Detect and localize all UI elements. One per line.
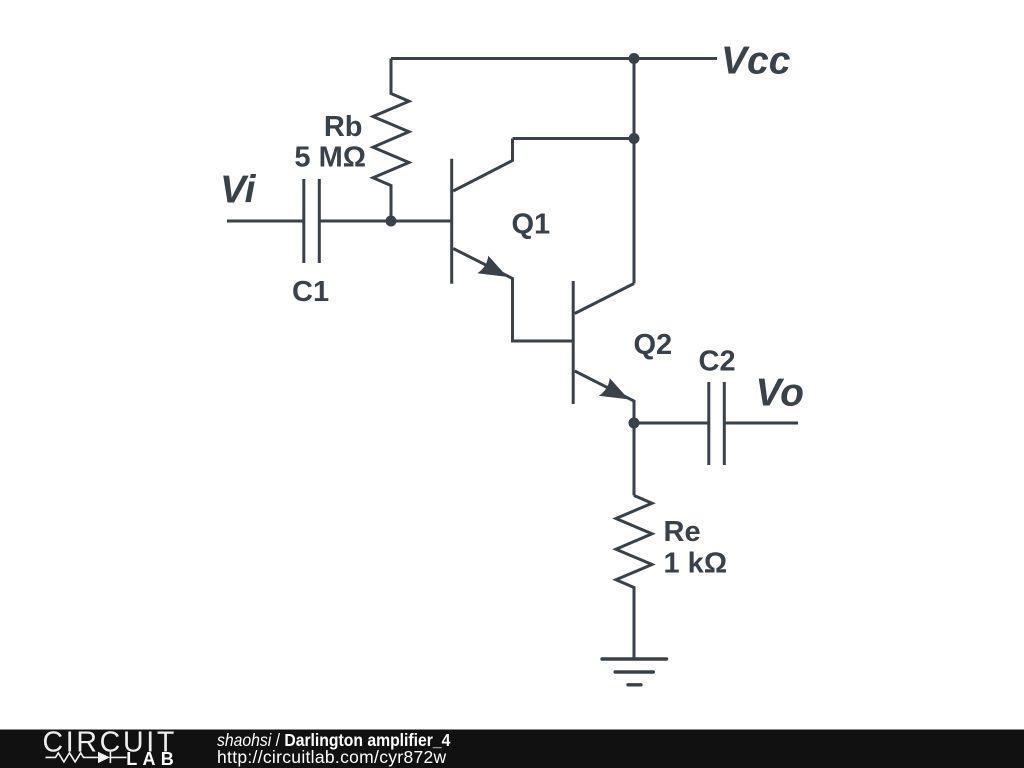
svg-text:LAB: LAB xyxy=(126,749,179,768)
wire Q1 emitter to Q2 base xyxy=(513,301,574,341)
capacitor C2 xyxy=(709,382,725,465)
svg-text:Q1: Q1 xyxy=(512,209,551,241)
resistor Re xyxy=(616,496,652,660)
transistor Q1 xyxy=(452,139,513,302)
wire C2 to Vo xyxy=(724,422,798,425)
wire node B down to Re xyxy=(633,423,636,496)
wire node B to C2 xyxy=(634,422,709,425)
wire Vi input lead xyxy=(227,220,304,223)
node Vcc rail junction dot xyxy=(629,53,640,64)
capacitor C1 xyxy=(304,179,320,263)
footer CircuitLab logo resistor-diode glyph xyxy=(46,752,127,763)
node collector net junction dot xyxy=(629,133,640,144)
wire C1 to Q1 base xyxy=(319,220,451,223)
wire vertical net from Vcc rail to Q2 collector xyxy=(633,59,636,284)
svg-text:Rb: Rb xyxy=(324,111,363,143)
svg-text:Q2: Q2 xyxy=(634,329,673,361)
wire Q1 collector to net xyxy=(513,137,635,140)
transistor Q2 xyxy=(573,281,634,423)
svg-text:C2: C2 xyxy=(699,346,736,378)
svg-text:C1: C1 xyxy=(292,276,329,308)
node A junction dot xyxy=(386,216,397,227)
svg-text:Vo: Vo xyxy=(756,372,804,415)
svg-text:Vi: Vi xyxy=(220,169,257,212)
svg-text:1 kΩ: 1 kΩ xyxy=(664,548,728,580)
svg-text:5 MΩ: 5 MΩ xyxy=(294,142,366,174)
ground xyxy=(602,659,667,685)
node B junction dot xyxy=(629,418,640,429)
wire Vcc rail xyxy=(391,57,717,60)
svg-text:Vcc: Vcc xyxy=(721,40,791,83)
footer bar xyxy=(0,730,1024,768)
svg-text:Re: Re xyxy=(664,516,701,548)
resistor Rb xyxy=(373,59,409,222)
svg-text:http://circuitlab.com/cyr872w: http://circuitlab.com/cyr872w xyxy=(217,747,447,767)
